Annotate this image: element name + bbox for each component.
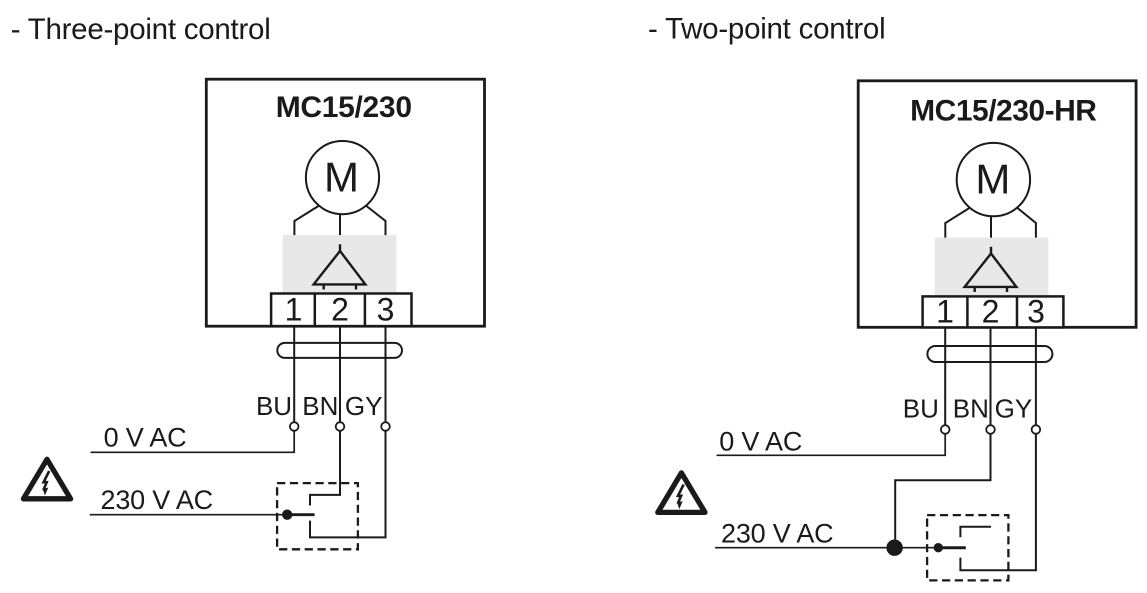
svg-text:2: 2 bbox=[982, 294, 1000, 330]
node GY (open terminal, right) bbox=[1032, 425, 1041, 434]
hazardous voltage warning symbol (right) bbox=[658, 473, 705, 512]
actuator box MC15/230-HR bbox=[858, 81, 1136, 327]
svg-text:0 V AC: 0 V AC bbox=[104, 422, 187, 452]
switch pole lever bbox=[287, 513, 314, 516]
svg-text:MC15/230: MC15/230 bbox=[276, 91, 412, 124]
svg-text:230 V AC: 230 V AC bbox=[101, 485, 213, 515]
wire: motor left lead (right) bbox=[945, 208, 970, 238]
switch pole lever (right) bbox=[938, 546, 966, 549]
potentiometer block (shaded) bbox=[283, 235, 397, 292]
svg-text:1: 1 bbox=[936, 294, 954, 330]
potentiometer symbol bbox=[314, 244, 366, 289]
svg-text:BU: BU bbox=[903, 393, 939, 423]
wire: 0 V AC to node BU bbox=[91, 431, 295, 453]
wire: motor middle lead (right) bbox=[990, 216, 992, 238]
node BN (open terminal) bbox=[336, 422, 345, 431]
motor M circle bbox=[306, 141, 379, 214]
svg-text:3: 3 bbox=[1027, 294, 1045, 330]
svg-text:2: 2 bbox=[331, 291, 349, 327]
node BU (open terminal, right) bbox=[941, 425, 950, 434]
actuator box MC15/230 bbox=[206, 79, 484, 326]
svg-text:1: 1 bbox=[285, 291, 303, 327]
svg-text:230 V AC: 230 V AC bbox=[721, 519, 833, 549]
wire: 230 V AC feed to switch pole bbox=[90, 514, 287, 516]
svg-text:MC15/230-HR: MC15/230-HR bbox=[910, 94, 1097, 127]
switch enclosure (dashed) bbox=[277, 483, 358, 549]
svg-text:M: M bbox=[975, 155, 1010, 202]
svg-text:0 V AC: 0 V AC bbox=[719, 426, 802, 456]
motor M circle (right) bbox=[957, 143, 1030, 216]
wire: 0 V AC to node BU (right) bbox=[717, 434, 946, 456]
svg-text:BN: BN bbox=[302, 391, 338, 421]
wire: motor right lead (right) bbox=[1017, 208, 1036, 238]
junction: switch pole dot bbox=[282, 510, 292, 520]
switch upper contact (unconnected) bbox=[960, 527, 991, 537]
potentiometer symbol (right) bbox=[965, 247, 1017, 292]
wire: switch lower contact to node GY (right) bbox=[960, 434, 1036, 570]
potentiometer block (shaded, right) bbox=[935, 238, 1049, 295]
svg-text:GY: GY bbox=[995, 393, 1033, 423]
cable gland (right) bbox=[927, 346, 1052, 362]
wire: terminal 2 down to node BN bbox=[339, 326, 341, 423]
svg-text:- Three-point control: - Three-point control bbox=[11, 13, 271, 46]
wire: terminal 2 down to node BN (right) bbox=[990, 328, 992, 426]
svg-text:BN: BN bbox=[953, 393, 989, 423]
cable gland bbox=[277, 343, 402, 358]
wire: motor middle lead bbox=[339, 214, 341, 236]
svg-text:- Two-point control: - Two-point control bbox=[648, 12, 885, 45]
svg-text:GY: GY bbox=[345, 391, 383, 421]
wire: terminal 1 down to node BU (right) bbox=[944, 328, 946, 426]
switch enclosure (dashed, right) bbox=[927, 515, 1008, 580]
wire: motor right lead bbox=[366, 206, 386, 236]
wire: switch lower contact to node GY bbox=[310, 431, 386, 538]
terminal block (right) bbox=[923, 296, 1064, 327]
junction: switch pole dot (right) bbox=[934, 543, 943, 552]
wire: node BN down to switch upper contact bbox=[310, 431, 340, 506]
node GY (open terminal) bbox=[381, 422, 390, 431]
svg-text:3: 3 bbox=[377, 291, 395, 327]
wire: node BN down to 230 V AC junction bbox=[895, 434, 990, 548]
node BN (open terminal, right) bbox=[986, 425, 995, 434]
wire: terminal 3 down to node GY bbox=[385, 326, 387, 423]
svg-text:M: M bbox=[324, 153, 359, 200]
wire: motor left lead bbox=[294, 206, 319, 236]
wire: terminal 3 down to node GY (right) bbox=[1035, 328, 1037, 426]
wire: 230 V AC feed to switch pole (right) bbox=[715, 547, 938, 549]
terminal block bbox=[271, 294, 411, 327]
node BU (open terminal) bbox=[290, 422, 299, 431]
svg-text:BU: BU bbox=[256, 391, 292, 421]
wire: terminal 1 down to node BU bbox=[293, 326, 295, 423]
junction: 230 V AC to BN tap bbox=[886, 540, 902, 556]
hazardous voltage warning symbol bbox=[23, 459, 70, 499]
